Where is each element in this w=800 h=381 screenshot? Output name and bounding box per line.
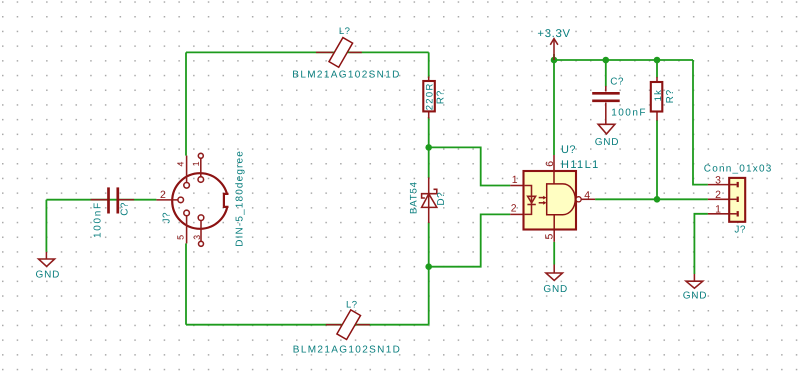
wire: from GND corner to capacitor C? and DIN pin 2 [46, 199, 156, 201]
junction node: diode bottom / opto pin 2 net [425, 263, 432, 270]
svg-text:1: 1 [512, 174, 518, 186]
svg-text:1: 1 [191, 161, 201, 166]
socket pin 1 [729, 211, 739, 216]
svg-text:4: 4 [584, 190, 590, 202]
diode D? (BAT54) [422, 177, 437, 223]
wire: from bottom junction to opto pin 2 [429, 214, 511, 266]
svg-text:+3.3V: +3.3V [537, 28, 570, 40]
ferrite bead L? (top, BLM21AG102SN1D) [316, 38, 362, 68]
body circle with notch [172, 173, 228, 229]
svg-text:GND: GND [595, 137, 620, 148]
wire: from top junction to opto pin 1 [429, 147, 511, 185]
svg-text:R?: R? [665, 89, 676, 103]
wire: top horizontal rail from left corner to right corner [186, 51, 429, 53]
wire: +3.3V stem to rail [553, 54, 555, 60]
wire: from opto pin 5 down to GND [553, 242, 555, 265]
pin 4 of DIN [184, 156, 190, 189]
svg-text:H11L1: H11L1 [561, 159, 600, 171]
svg-text:Conn_01x03: Conn_01x03 [704, 164, 773, 175]
svg-text:GND: GND [683, 291, 708, 302]
junction node: 3.3V rail at R? 1k [654, 57, 661, 64]
svg-text:2: 2 [511, 203, 517, 215]
ground GND left [39, 252, 55, 267]
internal LED wiring [525, 186, 532, 215]
svg-text:6: 6 [544, 161, 556, 167]
wire: bottom horizontal rail from DIN pin 5 leg to right corner [186, 324, 429, 326]
body box [729, 178, 745, 222]
svg-text:100nF: 100nF [611, 108, 647, 119]
pin 5 of DIN [184, 210, 190, 243]
pin 5 lead [553, 230, 555, 242]
socket pin 3 [729, 182, 739, 187]
wire: vertical from 3.3V rail down to opto pin 6 [553, 60, 555, 155]
capacitor C? (left 100nF) [91, 187, 135, 213]
opto-isolator U? H11L1 [510, 155, 595, 242]
svg-text:1k: 1k [653, 89, 664, 102]
ground GND under opto [546, 265, 563, 281]
ground GND right [686, 274, 703, 288]
pin 3 lead [708, 184, 729, 186]
svg-text:GND: GND [36, 270, 61, 281]
wire: stub from rail down to capacitor C? 100nF [605, 60, 607, 87]
wire: vertical from DIN pin 5 down to bottom rail [185, 243, 187, 324]
connector J? Conn_01x03 [708, 178, 745, 222]
pin 1 lead [708, 213, 729, 215]
wire: from opto pin 4 to conn pin 2 [595, 198, 708, 200]
svg-text:100nF: 100nF [93, 201, 104, 238]
ferrite bead L? (bottom, BLM21AG102SN1D) [326, 310, 370, 340]
svg-text:L?: L? [346, 300, 358, 311]
svg-text:C?: C? [120, 202, 131, 216]
svg-text:1: 1 [715, 204, 721, 216]
svg-text:2: 2 [160, 189, 166, 201]
body box [524, 171, 577, 230]
pin 2 lead [510, 213, 524, 215]
svg-text:L?: L? [339, 26, 351, 37]
capacitor C? (top 100nF) [592, 86, 620, 124]
pin 6 lead [553, 155, 555, 171]
pin 3 of DIN (unconnected) [198, 215, 204, 246]
svg-text:C?: C? [610, 77, 624, 88]
wire: right vertical from 3.3V rail down to conn pin 3 [693, 60, 708, 185]
junction node: 3.3V rail at power symbol [551, 57, 558, 64]
svg-text:D?: D? [436, 192, 447, 206]
junction node: R? 1k output on pin-4 net [654, 196, 661, 203]
wire: top-left vertical from top rail corner down to DIN pin 4 [185, 52, 187, 155]
pin 1 of DIN (unconnected) [198, 153, 204, 182]
pin 1 lead [510, 185, 524, 187]
junction node: 3.3V rail at C? [603, 57, 610, 64]
socket pin 2 [729, 197, 739, 202]
svg-text:U?: U? [561, 144, 576, 156]
svg-text:BLM21AG102SN1D: BLM21AG102SN1D [292, 69, 400, 80]
ground GND under top cap [598, 124, 615, 134]
svg-text:BLM21AG102SN1D: BLM21AG102SN1D [293, 344, 401, 355]
pin 2 of DIN [156, 197, 183, 203]
svg-text:4: 4 [176, 162, 186, 167]
svg-text:GND: GND [543, 284, 568, 295]
svg-text:2: 2 [715, 189, 721, 201]
wire: stub from rail down to resistor R? 1k [656, 60, 658, 78]
wire: +3.3V horizontal rail [554, 59, 693, 61]
resistor R? (220R) [423, 77, 435, 119]
LED arrows [539, 197, 544, 199]
wire: from R? 1k bottom down to pin-4 net junction [656, 120, 658, 199]
power symbol +3.3V [550, 39, 558, 60]
svg-text:220R: 220R [425, 82, 436, 110]
internal gate [553, 171, 555, 230]
wire: from R? 220R bottom down through junction to diode D? [428, 117, 430, 178]
svg-text:BAT54: BAT54 [408, 181, 419, 214]
svg-text:5: 5 [544, 234, 556, 240]
pin 2 lead [708, 198, 729, 200]
svg-text:J?: J? [162, 212, 173, 224]
wire: vertical down to left GND [45, 200, 47, 252]
wire: from conn pin 1 to right GND [694, 214, 708, 274]
pin 4 output bubble and lead [576, 197, 581, 202]
wire: from diode D? bottom down through junction to bottom rail corner [428, 223, 430, 325]
svg-text:5: 5 [175, 235, 185, 240]
wire: right vertical from top rail corner down to R? 220R [428, 52, 430, 78]
svg-text:J?: J? [734, 224, 746, 235]
internal LED [528, 196, 536, 203]
svg-text:3: 3 [192, 235, 202, 240]
svg-text:3: 3 [715, 174, 721, 186]
junction node: diode top / opto pin 1 net [425, 144, 432, 151]
connector J? DIN-5_180degree [172, 173, 231, 229]
svg-text:DIN-5_180degree: DIN-5_180degree [235, 150, 246, 247]
resistor R? (1k) [651, 77, 663, 121]
svg-text:R?: R? [435, 90, 446, 104]
